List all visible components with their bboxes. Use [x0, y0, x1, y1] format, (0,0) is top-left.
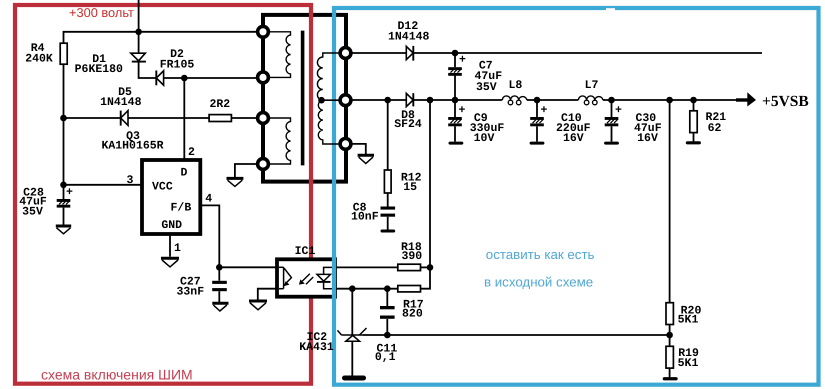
- node C10 rail: [534, 97, 541, 104]
- blue annotation box: [334, 8, 819, 385]
- node C11 bottom: [384, 332, 391, 339]
- svg-text:FR105: FR105: [160, 58, 195, 71]
- svg-text:390: 390: [401, 250, 422, 263]
- svg-text:GND: GND: [161, 219, 182, 232]
- red annotation box (схема включения ШИМ): [15, 5, 311, 384]
- svg-text:5K1: 5K1: [678, 313, 699, 326]
- svg-text:35V: 35V: [22, 206, 43, 219]
- transformer terminal sec3: [340, 139, 351, 150]
- wire D5 to 2R2: [128, 117, 209, 119]
- resistor R19: [666, 346, 673, 368]
- wire D5 row left: [64, 117, 121, 119]
- wire C27 node to IC1: [219, 266, 277, 268]
- svg-text:15: 15: [403, 181, 417, 194]
- label C30: [634, 112, 662, 145]
- svg-text:3: 3: [127, 174, 134, 187]
- node C7 top: [452, 50, 459, 57]
- ground bar C10: [530, 142, 545, 145]
- node R21 top: [690, 97, 697, 104]
- wire secondary pin top to D12: [352, 52, 406, 54]
- svg-text:10V: 10V: [474, 132, 495, 145]
- wire secondary bottom pin to ground: [352, 144, 365, 154]
- svg-text:1N4148: 1N4148: [100, 96, 142, 109]
- ground below Q3 pin1: [161, 258, 179, 267]
- ground bar C9: [449, 142, 464, 145]
- ground below C28: [56, 226, 71, 234]
- wire 2R2 to transformer pin3: [231, 117, 256, 119]
- svg-text:в исходной схеме: в исходной схеме: [484, 275, 593, 290]
- label R20: [678, 305, 702, 327]
- svg-text:L8: L8: [508, 79, 522, 92]
- label C11: [375, 343, 398, 364]
- node R12 tap: [384, 97, 391, 104]
- wire C27 to ground: [218, 291, 220, 302]
- ground bar IC2: [342, 376, 366, 381]
- resistor 2R2: [209, 115, 231, 122]
- resistor R4: [60, 43, 67, 64]
- label C10: [556, 112, 591, 145]
- wire Q3 pin1 to ground: [169, 234, 171, 257]
- ground below IC1: [249, 301, 267, 310]
- capacitor C7 electrolytic: [448, 67, 462, 76]
- capacitor C28 electrolytic: [57, 199, 71, 208]
- svg-text:KA431: KA431: [299, 341, 334, 354]
- resistor R17: [398, 286, 421, 292]
- wire transformer pin4 to primary ground: [235, 164, 257, 177]
- svg-text:35V: 35V: [476, 81, 497, 94]
- blue border notch artifact: [606, 8, 615, 11]
- node R20 R19 row C: [666, 332, 673, 339]
- node R18 right: [427, 264, 434, 271]
- capacitor C8 film: [381, 207, 396, 217]
- wire IC1 to R18: [335, 266, 398, 268]
- node R20 branch: [666, 97, 673, 104]
- +5VSB output arrow: [736, 92, 756, 106]
- label D2: [160, 48, 195, 71]
- svg-text:L7: L7: [585, 79, 599, 92]
- ground primary transformer: [227, 178, 244, 186]
- svg-text:D: D: [181, 167, 188, 180]
- node C9 rail: [452, 97, 459, 104]
- label C8: [351, 202, 379, 224]
- label D8: [394, 109, 422, 131]
- wire R12 to C8: [387, 193, 389, 207]
- svg-text:820: 820: [402, 308, 423, 321]
- node left rail C28: [60, 182, 67, 189]
- svg-text:0,1: 0,1: [375, 351, 396, 364]
- svg-text:+300 вольт: +300 вольт: [69, 5, 134, 20]
- svg-text:+: +: [459, 54, 466, 67]
- label C28: [19, 186, 47, 218]
- ground bar R19: [663, 377, 678, 380]
- label Q3: [101, 130, 163, 153]
- svg-text:+: +: [66, 186, 73, 199]
- svg-text:VCC: VCC: [152, 180, 173, 193]
- svg-text:SF24: SF24: [394, 118, 422, 131]
- ground below C27: [212, 303, 228, 311]
- node D8 output: [427, 97, 434, 104]
- wire C10 leads: [536, 100, 538, 117]
- wire IC2 branch down: [351, 289, 353, 335]
- node C30 rail: [608, 97, 615, 104]
- transformer terminal pin3: [258, 113, 269, 124]
- capacitor C9 electrolytic: [448, 117, 462, 126]
- svg-text:2R2: 2R2: [209, 98, 230, 111]
- svg-text:33nF: 33nF: [176, 286, 204, 299]
- wire rail L8 to L7: [527, 99, 579, 101]
- wire D1 anode: [138, 32, 140, 53]
- wire D2 node down to Q3 pin2: [183, 78, 185, 160]
- wire R18 right lead: [421, 266, 431, 268]
- wire main 5V rail: [413, 99, 502, 101]
- wire R12 branch: [387, 100, 389, 170]
- label R17: [402, 298, 424, 320]
- node C27 pin4: [216, 264, 223, 271]
- label R21: [705, 111, 726, 135]
- wire Q3 pin4 to C27 node: [200, 205, 219, 280]
- svg-text:10nF: 10nF: [351, 211, 379, 224]
- transformer terminal pin1: [258, 26, 269, 37]
- wire C11 branch: [386, 289, 388, 306]
- label C7: [474, 60, 502, 95]
- wire row C reference: [363, 334, 670, 336]
- svg-text:62: 62: [708, 122, 722, 135]
- resistor R20: [666, 303, 673, 325]
- wire C28 to ground: [63, 208, 65, 225]
- diode D2 FR105: [156, 71, 163, 86]
- svg-text:F/B: F/B: [171, 201, 192, 214]
- transformer terminal sec1: [340, 48, 351, 59]
- wire R20 branch long vertical: [669, 100, 671, 303]
- wire C9 leads: [454, 100, 456, 117]
- ground bar C30: [604, 142, 619, 145]
- wire IC1 left-bottom pin to ground: [258, 289, 277, 300]
- label R19: [678, 347, 699, 370]
- svg-text:+: +: [541, 104, 548, 117]
- node left rail D5: [60, 115, 67, 122]
- wire R19 to ground: [669, 368, 671, 377]
- optocoupler IC1 phototransistor: [279, 267, 292, 289]
- wire top rail to transformer pin1: [64, 32, 257, 43]
- ground secondary: [358, 155, 374, 163]
- transformer primary winding 1: [270, 32, 291, 78]
- ground bar R21: [686, 141, 701, 144]
- node secondary center tap: [318, 97, 325, 104]
- blue box overdraw at transformer and IC1 crossings: [332, 12, 336, 19]
- transformer terminal pin2: [258, 72, 269, 83]
- node IC2 top: [349, 285, 356, 292]
- label IC2: [299, 331, 334, 354]
- svg-text:+5VSB: +5VSB: [762, 93, 809, 110]
- resistor R21: [690, 111, 697, 133]
- svg-text:1N4148: 1N4148: [388, 31, 430, 44]
- capacitor C11 film: [380, 306, 395, 319]
- wire secondary mid pin to D8: [352, 99, 406, 101]
- transformer secondary winding: [317, 53, 338, 144]
- wire D1 cathode to D2: [139, 62, 157, 78]
- diode D1 P6KE180: [131, 53, 146, 61]
- transformer terminal pin4: [258, 159, 269, 170]
- svg-text:+: +: [615, 104, 622, 117]
- wire VCC pin3 row: [64, 184, 143, 186]
- inductor L8: [502, 96, 527, 100]
- transformer terminal sec2: [340, 95, 351, 106]
- wire +300V feed from top: [138, 0, 140, 32]
- svg-text:2: 2: [188, 146, 195, 159]
- label R4: [25, 42, 53, 66]
- resistor R18: [398, 264, 421, 270]
- svg-text:IC1: IC1: [295, 245, 316, 258]
- wire C7 top lead: [454, 53, 456, 67]
- wire C8 to ground bar: [387, 217, 389, 230]
- svg-text:оставить как есть: оставить как есть: [486, 247, 595, 262]
- transformer T1 outline: [263, 15, 346, 182]
- red box overdraw at transformer crossings: [309, 12, 313, 19]
- IC2 KA431 shunt regulator symbol: [338, 328, 367, 341]
- svg-text:240K: 240K: [25, 53, 53, 66]
- label D5: [100, 86, 142, 109]
- optocoupler IC1 LED: [317, 267, 333, 288]
- wire C7 bottom lead: [454, 76, 456, 101]
- optocoupler IC1 light arrows: [299, 274, 313, 285]
- node C11 top: [384, 285, 391, 292]
- diode D5 1N4148: [121, 111, 128, 126]
- wire D8 node down to R18 R17: [421, 100, 431, 289]
- svg-text:+: +: [459, 104, 466, 117]
- svg-text:P6KE180: P6KE180: [75, 63, 123, 76]
- wire IC2 cathode to ground: [351, 341, 353, 375]
- wire D2 to transformer pin2: [164, 77, 257, 79]
- node +300V junction: [135, 29, 142, 36]
- wire R21 leads: [693, 100, 695, 111]
- transformer primary winding 2: [270, 118, 291, 164]
- label R18: [401, 241, 422, 263]
- svg-text:KA1H0165R: KA1H0165R: [101, 140, 163, 153]
- wire C30 leads: [611, 100, 613, 117]
- svg-text:16V: 16V: [563, 132, 584, 145]
- svg-text:16V: 16V: [637, 132, 658, 145]
- inductor L7: [578, 96, 603, 100]
- svg-text:5K1: 5K1: [678, 357, 699, 370]
- diode D12 1N4148: [406, 46, 413, 61]
- ground bar C8: [381, 230, 396, 233]
- wire rail L7 to arrow: [603, 99, 737, 101]
- wire IC1 to R17 row B: [335, 288, 398, 290]
- label R12: [401, 172, 422, 195]
- diode D8 SF24: [406, 93, 413, 106]
- resistor R12: [384, 170, 391, 193]
- capacitor C30 electrolytic: [605, 117, 619, 126]
- wire D12 to top rail end: [413, 52, 762, 54]
- label D12: [388, 20, 430, 44]
- svg-text:1: 1: [174, 242, 181, 255]
- wire R20 to row C: [669, 325, 671, 347]
- label C9: [470, 112, 505, 145]
- transformer core: [301, 31, 305, 166]
- wire C11 bottom: [386, 319, 388, 335]
- capacitor C10 electrolytic: [530, 117, 544, 126]
- svg-text:4: 4: [205, 193, 212, 206]
- capacitor C27 film: [212, 281, 227, 291]
- wire R4 bottom to left rail down: [63, 64, 65, 199]
- wire secondary center tap: [323, 99, 339, 101]
- optocoupler IC1 body: [277, 259, 335, 296]
- svg-text:схема включения ШИМ: схема включения ШИМ: [41, 367, 193, 383]
- label C27: [176, 276, 204, 299]
- label D1: [75, 53, 123, 76]
- node D2 output: [181, 75, 188, 82]
- chip Q3 KA1H0165R body: [142, 160, 200, 234]
